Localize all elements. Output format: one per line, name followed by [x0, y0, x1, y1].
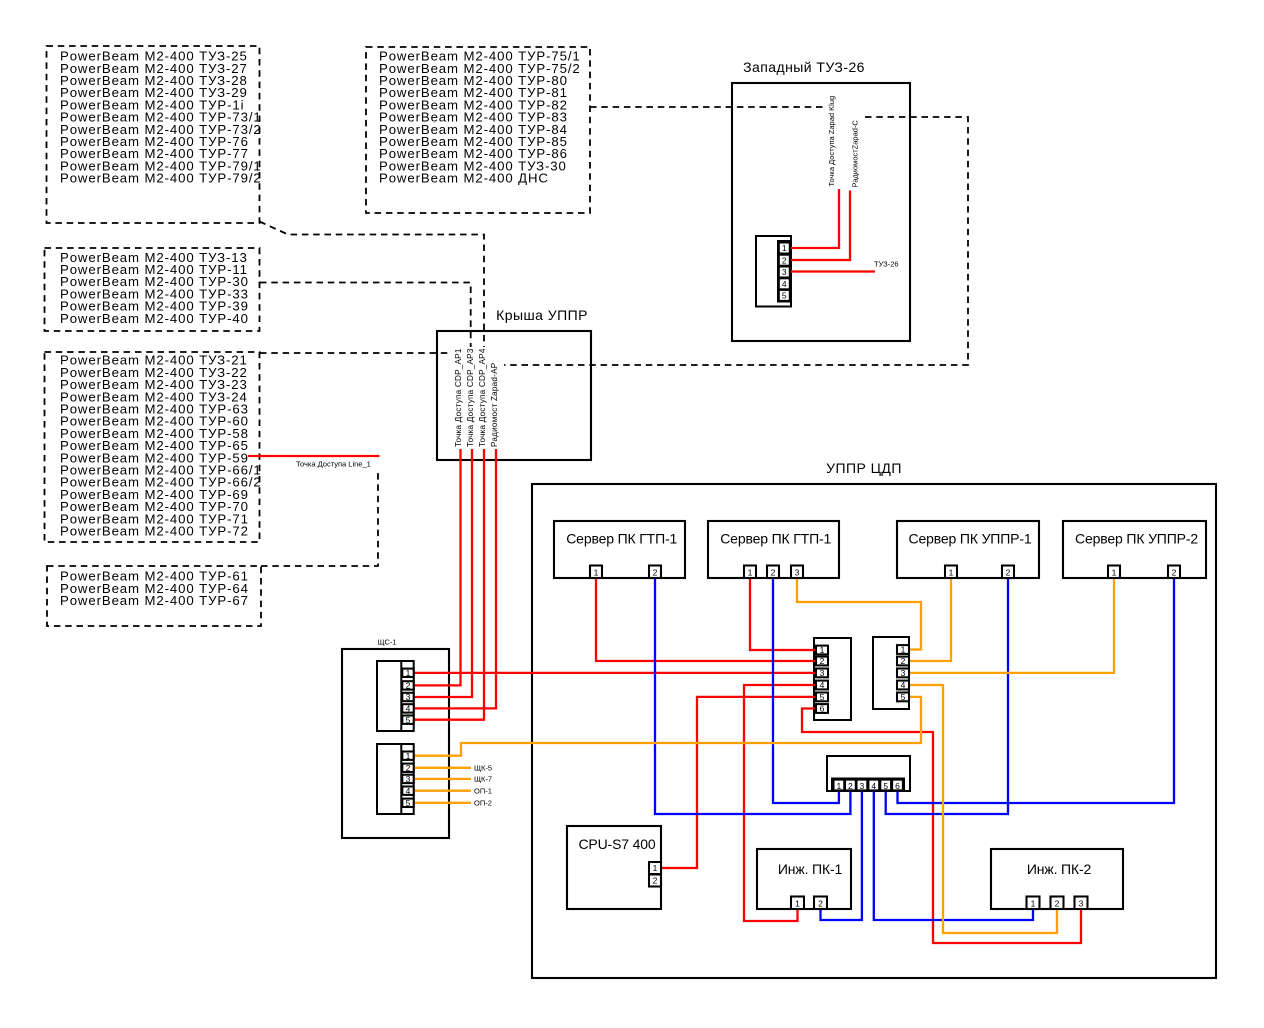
port 3 of server GTP-1 (2)	[791, 566, 803, 579]
svg-text:Точка Доступа Line_1: Точка Доступа Line_1	[296, 460, 371, 469]
dashed group box 4: PowerBeam list TU3-21	[45, 352, 260, 542]
svg-text:1: 1	[1112, 568, 1117, 578]
svg-text:5: 5	[883, 781, 888, 791]
wire orange: SchS-1 B port2 stub SchK-5	[414, 767, 471, 769]
wire blue: server GTP-1(1) port2 to patch port2	[655, 578, 850, 814]
wire red: roof AP1 to SchS-1 A port2	[414, 449, 461, 685]
svg-text:Инж. ПК-2: Инж. ПК-2	[1027, 861, 1092, 877]
connector block SchS-1 B outline	[377, 744, 414, 814]
svg-text:2: 2	[818, 899, 823, 909]
svg-text:ЩК-7: ЩК-7	[474, 775, 492, 784]
svg-text:2: 2	[771, 568, 776, 578]
port 3 of switch A	[816, 669, 828, 678]
port 2 of patch	[845, 780, 856, 791]
port 2 of Inzh PK-1	[814, 897, 827, 910]
svg-text:3: 3	[901, 668, 906, 678]
svg-text:2: 2	[782, 255, 787, 265]
server box: Server PK UPPR-2	[1063, 521, 1206, 578]
wire orange: switch B port3 to server UPPR-2 port1	[906, 578, 1114, 673]
port 1 of Inzh PK-2	[1027, 897, 1040, 910]
port 2 of switch A	[816, 657, 828, 666]
svg-text:2: 2	[653, 876, 658, 886]
dashed link: box2 to Zapad TU3-26	[590, 106, 825, 108]
svg-text:1: 1	[406, 751, 411, 761]
svg-text:1: 1	[795, 899, 800, 909]
wire orange: server GTP-1(2) port3 to switch B port1	[797, 578, 921, 650]
server box: Server PK GTP-1 (first)	[554, 521, 685, 578]
port 4 of switch B	[897, 681, 909, 690]
svg-text:2: 2	[1172, 568, 1177, 578]
port 2 of Zapad connector	[779, 255, 790, 266]
dashed group box 1: PowerBeam list TU3-25	[47, 46, 260, 223]
wire red: server GTP-1(2) port1 to switch A port1	[750, 578, 818, 650]
wire red: roof AP3 to SchS-1 A port3	[414, 449, 472, 697]
device box: CPU-S7 400	[567, 826, 661, 909]
svg-text:Сервер ПК ГТП-1: Сервер ПК ГТП-1	[720, 531, 831, 547]
port 1 of Inzh PK-1	[791, 897, 804, 910]
wire orange: switch B port4 to Inzh PK-2 port2	[906, 685, 1057, 933]
port 2 of server UPPR-2	[1168, 566, 1180, 579]
port 4 of switch A	[816, 681, 828, 690]
port 3 of patch	[857, 780, 868, 791]
port 5 of patch	[880, 780, 891, 791]
svg-text:1: 1	[594, 568, 599, 578]
svg-text:2: 2	[1006, 568, 1011, 578]
svg-text:Точка Доступа Zapad Klug: Точка Доступа Zapad Klug	[827, 96, 836, 187]
svg-text:УППР ЦДП: УППР ЦДП	[826, 460, 902, 476]
port 3 of Zapad connector	[779, 267, 790, 278]
port 2 of CPU-S7 400	[649, 875, 661, 887]
svg-text:3: 3	[406, 692, 411, 702]
svg-text:PowerBeam M2-400 ТУР-79/2: PowerBeam M2-400 ТУР-79/2	[60, 171, 262, 186]
wire red: switch A port6 to Inzh PK-2 port3	[802, 709, 1081, 944]
wire red: roof AP4 to SchS-1 A port5	[414, 449, 484, 720]
svg-text:2: 2	[901, 656, 906, 666]
svg-text:2: 2	[406, 681, 411, 691]
svg-text:5: 5	[782, 291, 787, 301]
port 4 of patch	[868, 780, 879, 791]
dashed link: box5 to Line_1	[261, 471, 378, 566]
svg-text:3: 3	[782, 267, 787, 277]
wire blue: server UPPR-1 port2 to patch port5	[886, 578, 1008, 814]
building box: UPPR CDP	[532, 484, 1216, 978]
dashed group box 3: PowerBeam list TU3-13	[45, 248, 260, 331]
building box: roof Krysha UPPR	[437, 331, 591, 460]
svg-text:1: 1	[837, 781, 842, 791]
svg-text:Сервер ПК УППР-1: Сервер ПК УППР-1	[909, 531, 1032, 547]
svg-text:4: 4	[871, 781, 876, 791]
wire red: SchS-1 A port1 to switch A port3	[414, 672, 818, 674]
port 2 of server GTP-1 (2)	[767, 566, 779, 579]
dashed group box 2: PowerBeam list TUR-75	[366, 47, 590, 213]
svg-text:2: 2	[406, 763, 411, 773]
port 4 of SchS-1 B	[402, 787, 413, 795]
port 1 of patch	[834, 780, 845, 791]
svg-text:ЩС-1: ЩС-1	[377, 638, 396, 647]
connector block SchS-1 A outline	[377, 661, 414, 731]
svg-text:4: 4	[820, 680, 825, 690]
bottom patch connector outline	[827, 756, 910, 791]
svg-text:1: 1	[748, 568, 753, 578]
port 2 of server GTP-1 (1)	[649, 566, 661, 579]
wire orange: SchS-1 B port3 stub SchK-7	[414, 778, 471, 780]
SchS-1 B port strip divider	[400, 744, 402, 814]
svg-text:3: 3	[795, 568, 800, 578]
wire red: Zapad port3 to TU3-26	[791, 270, 875, 272]
switch B outline	[873, 637, 909, 709]
svg-text:4: 4	[406, 786, 411, 796]
building box: Zapadny TU3-26	[732, 83, 910, 341]
svg-text:1: 1	[1031, 899, 1036, 909]
port 1 of server GTP-1 (1)	[590, 566, 602, 579]
svg-text:6: 6	[820, 704, 825, 714]
svg-text:РадиомостZapad-C: РадиомостZapad-C	[851, 120, 860, 188]
svg-text:5: 5	[406, 715, 411, 725]
svg-text:CPU-S7 400: CPU-S7 400	[578, 836, 655, 852]
svg-text:4: 4	[901, 680, 906, 690]
svg-text:1: 1	[901, 645, 906, 655]
wire orange: SchS-1 B port5 stub OP-2	[414, 802, 471, 804]
wire blue: patch port3 to Inzh PK-1 port2	[821, 790, 862, 920]
port 3 of SchS-1 A	[402, 693, 413, 701]
server box: Server PK GTP-1 (second)	[708, 521, 839, 578]
svg-text:5: 5	[406, 798, 411, 808]
wire red: Zapad port2 to antenna Zapad-C	[791, 191, 850, 261]
port 2 of Inzh PK-2	[1051, 897, 1064, 910]
Zapad port strip	[778, 241, 790, 302]
svg-text:Точка Доступа CDP_AP4: Точка Доступа CDP_AP4	[478, 348, 487, 447]
port 3 of Inzh PK-2	[1075, 897, 1088, 910]
svg-text:Инж. ПК-1: Инж. ПК-1	[778, 861, 843, 877]
svg-text:1: 1	[949, 568, 954, 578]
svg-text:PowerBeam M2-400 ДНС: PowerBeam M2-400 ДНС	[379, 171, 549, 186]
port 5 of SchS-1 A	[402, 716, 413, 724]
port 1 of switch A	[816, 646, 828, 655]
svg-text:ОП-2: ОП-2	[474, 799, 492, 808]
SchS-1 A port strip divider	[400, 661, 402, 731]
port 1 of Zapad connector	[779, 243, 790, 254]
port 2 of switch B	[897, 657, 909, 666]
svg-text:1: 1	[820, 645, 825, 655]
wire red: switch A port4 to Inzh PK-1 port1	[744, 685, 818, 921]
svg-text:ЩК-5: ЩК-5	[474, 764, 492, 773]
Zapad connector outline	[756, 236, 791, 307]
wire red: server GTP-1(1) port1 to switch A port2	[596, 578, 818, 661]
port 4 of SchS-1 A	[402, 704, 413, 712]
svg-text:1: 1	[406, 668, 411, 678]
svg-text:1: 1	[782, 243, 787, 253]
port 1 of SchS-1 B	[402, 752, 413, 760]
svg-text:2: 2	[1055, 899, 1060, 909]
svg-text:3: 3	[860, 781, 865, 791]
port 5 of Zapad connector	[779, 290, 790, 301]
svg-text:PowerBeam M2-400 ТУР-67: PowerBeam M2-400 ТУР-67	[60, 593, 249, 608]
svg-text:Сервер ПК ГТП-1: Сервер ПК ГТП-1	[566, 531, 677, 547]
svg-text:2: 2	[848, 781, 853, 791]
wire red: TUR-59 to Line_1	[248, 455, 380, 457]
wire orange: switch B port5 to SchS-1 B port1	[414, 697, 921, 756]
dashed link: radio bridge Zapad-C to Zapad-AP	[504, 117, 968, 365]
port 2 of SchS-1 B	[402, 764, 413, 772]
port 5 of switch A	[816, 693, 828, 702]
port 1 of server UPPR-1	[945, 566, 957, 579]
port 3 of switch B	[897, 669, 909, 678]
wire orange: SchS-1 B port4 stub OP-1	[414, 790, 471, 792]
svg-text:Западный ТУЗ-26: Западный ТУЗ-26	[743, 59, 865, 75]
port 2 of server UPPR-1	[1002, 566, 1014, 579]
patch port strip	[832, 779, 904, 792]
svg-text:2: 2	[653, 568, 658, 578]
svg-text:Точка Доступа CDP_AP1: Точка Доступа CDP_AP1	[454, 348, 463, 447]
wire red: switch A port5 to CPU-S7 port1	[659, 697, 818, 868]
port 6 of switch A	[816, 704, 828, 713]
svg-text:Точка Доступа CDP_AP3: Точка Доступа CDP_AP3	[466, 348, 475, 447]
wire red: roof Zapad-AP to SchS-1 A port4	[414, 449, 496, 708]
wire blue: patch port4 to Inzh PK-2 port1	[874, 790, 1033, 920]
svg-text:Радиомост Zapad-AP: Радиомост Zapad-AP	[490, 362, 499, 447]
wire orange: server UPPR-1 port1 to switch B port2	[906, 578, 951, 661]
port 2 of SchS-1 A	[402, 681, 413, 689]
port 6 of patch	[892, 780, 903, 791]
svg-text:3: 3	[1079, 899, 1084, 909]
port 1 of CPU-S7 400	[649, 862, 661, 874]
svg-text:5: 5	[901, 692, 906, 702]
cabinet box: SchS-1	[342, 649, 449, 838]
port 1 of SchS-1 A	[402, 669, 413, 677]
svg-text:2: 2	[820, 656, 825, 666]
port 5 of SchS-1 B	[402, 799, 413, 807]
port 1 of server GTP-1 (2)	[744, 566, 756, 579]
device box: Inzh PK-1	[757, 849, 851, 909]
svg-text:Сервер ПК УППР-2: Сервер ПК УППР-2	[1075, 531, 1198, 547]
svg-text:ТУЗ-26: ТУЗ-26	[874, 260, 899, 269]
port 4 of Zapad connector	[779, 278, 790, 289]
device box: Inzh PK-2	[991, 849, 1123, 909]
switch A outline	[814, 638, 851, 720]
svg-text:3: 3	[820, 668, 825, 678]
svg-text:ОП-1: ОП-1	[474, 786, 492, 795]
svg-text:6: 6	[895, 781, 900, 791]
wire blue: server GTP-1(2) port2 to patch port1	[773, 578, 839, 803]
port 5 of switch B	[897, 693, 909, 702]
port 3 of SchS-1 B	[402, 775, 413, 783]
wire red: Zapad port1 to antenna Zapad Klug	[791, 189, 839, 248]
svg-text:5: 5	[820, 692, 825, 702]
svg-text:4: 4	[406, 704, 411, 714]
svg-text:4: 4	[782, 279, 787, 289]
port 1 of switch B	[897, 645, 909, 654]
server box: Server PK UPPR-1	[897, 521, 1039, 578]
dashed link: box4 to roof AP1	[260, 352, 449, 354]
wire blue: server UPPR-2 port2 to patch port6	[898, 578, 1175, 803]
dashed group box 5: PowerBeam list TUR-61	[47, 566, 261, 626]
svg-text:PowerBeam M2-400 ТУР-72: PowerBeam M2-400 ТУР-72	[60, 524, 249, 539]
svg-text:PowerBeam M2-400 ТУР-40: PowerBeam M2-400 ТУР-40	[60, 311, 249, 326]
svg-text:1: 1	[653, 863, 658, 873]
svg-text:Крыша УППР: Крыша УППР	[496, 307, 588, 323]
svg-text:3: 3	[406, 774, 411, 784]
port 1 of server UPPR-2	[1108, 566, 1120, 579]
dashed link: box3 to roof AP3	[260, 283, 471, 348]
dashed link: box1 to roof AP4	[260, 222, 485, 348]
